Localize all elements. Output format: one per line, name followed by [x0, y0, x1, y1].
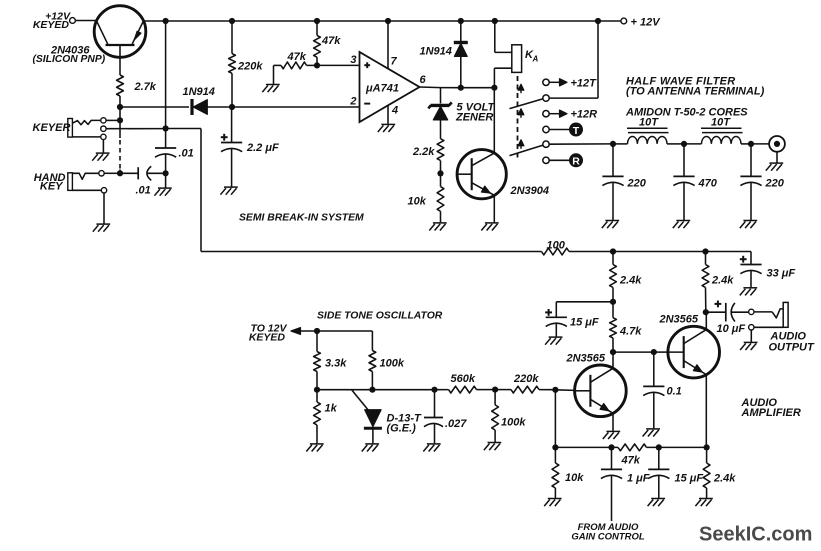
svg-text:KEYED: KEYED: [249, 332, 286, 344]
svg-text:KEY: KEY: [40, 181, 64, 193]
svg-text:2.7k: 2.7k: [134, 81, 157, 93]
svg-text:2.2k: 2.2k: [412, 146, 435, 158]
svg-text:2.4k: 2.4k: [713, 473, 736, 485]
svg-text:33 μF: 33 μF: [767, 268, 796, 280]
svg-text:AMPLIFIER: AMPLIFIER: [741, 407, 801, 419]
svg-text:47k: 47k: [321, 35, 341, 47]
svg-text:47k: 47k: [621, 455, 641, 467]
svg-text:2.4k: 2.4k: [619, 275, 642, 287]
svg-text:2N3565: 2N3565: [659, 314, 699, 326]
svg-text:.01: .01: [179, 148, 194, 160]
svg-text:GAIN CONTROL: GAIN CONTROL: [571, 532, 645, 543]
svg-text:A: A: [532, 55, 539, 64]
svg-text:47k: 47k: [287, 51, 307, 63]
svg-text:560k: 560k: [451, 373, 476, 385]
svg-text:μA741: μA741: [365, 83, 399, 95]
svg-text:2.4k: 2.4k: [711, 275, 734, 287]
svg-text:10k: 10k: [408, 196, 427, 208]
svg-text:3: 3: [350, 54, 356, 66]
svg-text:4: 4: [391, 105, 398, 117]
svg-text:4.7k: 4.7k: [619, 326, 642, 338]
svg-text:1 μF: 1 μF: [627, 473, 650, 485]
svg-text:220: 220: [765, 178, 785, 190]
svg-text:ZENER: ZENER: [455, 112, 493, 124]
svg-text:10 μF: 10 μF: [717, 323, 746, 335]
svg-text:3.3k: 3.3k: [325, 358, 347, 370]
svg-text:1k: 1k: [325, 403, 338, 415]
svg-text:(G.E.): (G.E.): [387, 423, 417, 435]
svg-text:(SILICON PNP): (SILICON PNP): [33, 54, 106, 65]
svg-text:2N3904: 2N3904: [510, 185, 550, 197]
svg-text:7: 7: [391, 56, 398, 68]
svg-text:(TO ANTENNA TERMINAL): (TO ANTENNA TERMINAL): [626, 86, 765, 98]
svg-text:KEYED: KEYED: [33, 19, 70, 31]
svg-text:SEMI BREAK-IN SYSTEM: SEMI BREAK-IN SYSTEM: [239, 213, 364, 224]
svg-text:+12T: +12T: [571, 78, 598, 90]
svg-text:+ 12V: + 12V: [631, 17, 662, 29]
svg-text:OUTPUT: OUTPUT: [769, 342, 816, 354]
svg-text:2: 2: [349, 96, 356, 108]
svg-text:KEYER: KEYER: [33, 122, 71, 134]
svg-text:.01: .01: [136, 185, 151, 197]
svg-text:10k: 10k: [565, 472, 584, 484]
svg-text:100k: 100k: [380, 358, 405, 370]
svg-text:0.1: 0.1: [667, 386, 682, 398]
svg-text:SIDE TONE OSCILLATOR: SIDE TONE OSCILLATOR: [317, 311, 443, 322]
svg-text:220k: 220k: [237, 61, 263, 73]
svg-text:220k: 220k: [513, 373, 539, 385]
svg-text:R: R: [572, 156, 580, 168]
svg-text:15 μF: 15 μF: [675, 473, 704, 485]
svg-text:10T: 10T: [639, 117, 659, 129]
svg-text:2N3565: 2N3565: [566, 353, 606, 365]
svg-text:+12R: +12R: [571, 109, 598, 121]
svg-text:1N914: 1N914: [183, 86, 215, 98]
svg-text:2.2 μF: 2.2 μF: [246, 142, 279, 154]
svg-text:T: T: [573, 125, 580, 137]
svg-text:15 μF: 15 μF: [570, 317, 599, 329]
svg-text:6: 6: [420, 74, 427, 86]
svg-text:.027: .027: [445, 418, 467, 430]
svg-text:470: 470: [698, 178, 718, 190]
svg-text:220: 220: [627, 178, 647, 190]
svg-text:100k: 100k: [501, 417, 526, 429]
svg-text:10T: 10T: [711, 117, 731, 129]
svg-text:1N914: 1N914: [420, 46, 452, 58]
svg-text:100: 100: [547, 240, 566, 252]
svg-text:SeekIC.com: SeekIC.com: [699, 524, 812, 546]
